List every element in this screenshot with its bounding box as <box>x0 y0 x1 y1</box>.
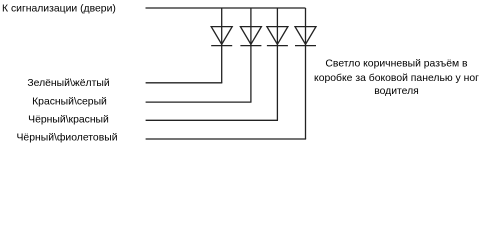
diode D2 <box>240 27 261 46</box>
wire: green/yellow lead <box>146 82 223 84</box>
diode D1 <box>211 27 232 46</box>
wire: D3 branch vertical <box>276 8 278 120</box>
wire: D1 branch vertical <box>221 8 223 83</box>
note: connector location annotation <box>314 59 479 97</box>
wire: top bus (to alarm) <box>146 7 306 9</box>
svg-text:Зелёный\жёлтый: Зелёный\жёлтый <box>27 78 109 89</box>
svg-text:Чёрный\фиолетовый: Чёрный\фиолетовый <box>17 131 118 143</box>
svg-text:водителя: водителя <box>374 86 419 97</box>
svg-text:Светло коричневый разъём в: Светло коричневый разъём в <box>325 59 468 70</box>
svg-text:Чёрный\красный: Чёрный\красный <box>28 114 109 125</box>
wire: D2 branch vertical <box>250 8 252 102</box>
svg-text:Красный\серый: Красный\серый <box>32 96 107 107</box>
wire: red/grey lead <box>146 101 252 103</box>
svg-text:К сигнализации (двери): К сигнализации (двери) <box>2 4 116 15</box>
diode D4 <box>295 27 316 46</box>
wire: black/red lead <box>146 119 278 121</box>
diode D3 <box>267 27 288 46</box>
wire: D4 branch vertical <box>305 8 307 139</box>
wire: black/violet lead <box>146 138 307 140</box>
svg-text:коробке за боковой панелью у н: коробке за боковой панелью у ног <box>314 72 479 84</box>
